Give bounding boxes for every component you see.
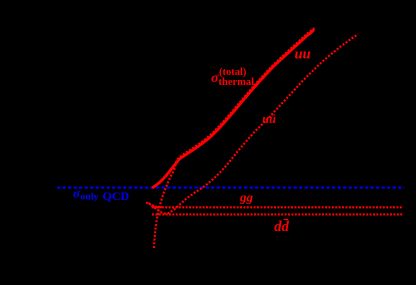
svg-text:uū: uū xyxy=(262,112,276,126)
svg-text:QCD: QCD xyxy=(103,189,130,203)
svg-text:only: only xyxy=(81,192,99,203)
svg-text:thermal: thermal xyxy=(219,77,255,88)
svg-text:dd̄: dd̄ xyxy=(274,219,289,235)
svg-text:uu: uu xyxy=(295,46,311,62)
svg-text:gg: gg xyxy=(239,190,254,205)
